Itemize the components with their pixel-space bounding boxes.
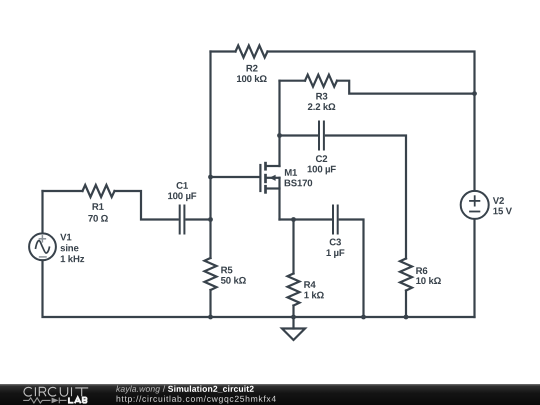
svg-text:V1: V1	[60, 232, 72, 243]
svg-text:100 µF: 100 µF	[307, 164, 336, 175]
resistor R3	[305, 75, 337, 87]
junction node source/R4	[291, 217, 296, 222]
svg-text:70 Ω: 70 Ω	[88, 214, 109, 225]
wire bottom rail	[43, 260, 475, 317]
svg-text:1 µF: 1 µF	[326, 248, 345, 259]
capacitor C3	[333, 206, 338, 234]
wire R6 to bottom rail	[405, 291, 407, 318]
svg-text:R4: R4	[304, 280, 317, 291]
svg-text:2.2 kΩ: 2.2 kΩ	[308, 102, 336, 113]
voltage source V1	[29, 233, 56, 260]
footer bar	[0, 383, 540, 405]
svg-text:50 kΩ: 50 kΩ	[221, 276, 247, 287]
svg-text:sine: sine	[60, 243, 78, 254]
wire top rail left	[211, 50, 236, 52]
wire V2 bottom lead	[473, 219, 475, 317]
junction node R6/bottom rail	[404, 315, 409, 320]
junction node R5/bottom rail	[208, 315, 213, 320]
svg-text:R5: R5	[221, 265, 234, 276]
junction node ground	[291, 315, 296, 320]
svg-text:R2: R2	[246, 63, 258, 74]
wire gate	[211, 176, 259, 178]
wire top rail right	[268, 52, 475, 191]
voltage source V2	[461, 191, 489, 219]
wire left vertical to R5	[209, 220, 211, 259]
wire R1 to corner	[115, 191, 178, 220]
ground	[282, 317, 305, 340]
svg-text:R1: R1	[92, 202, 105, 213]
svg-text:V2: V2	[493, 196, 504, 207]
resistor R2	[236, 46, 268, 58]
logo word LAB	[69, 397, 87, 403]
junction node R3/right rail	[472, 91, 477, 96]
wire drain node to C2	[280, 134, 318, 136]
svg-text:100 kΩ: 100 kΩ	[236, 74, 267, 85]
transistor M1	[260, 162, 279, 220]
logo word CIRCUIT	[24, 387, 88, 396]
wire R4 top lead	[292, 220, 294, 274]
svg-text:100 µF: 100 µF	[168, 191, 197, 202]
svg-text:M1: M1	[284, 168, 298, 179]
wire R4 to bottom rail	[292, 306, 294, 318]
junction node C1/R5	[208, 217, 213, 222]
svg-text:kayla.wong / Simulation2_circu: kayla.wong / Simulation2_circuit2	[116, 384, 254, 394]
svg-text:15 V: 15 V	[493, 206, 513, 217]
wire C2 to R6 branch	[326, 136, 406, 259]
wire source to C3 node	[280, 218, 332, 220]
wire V1 to R1	[43, 190, 83, 192]
credit line 1	[116, 384, 277, 404]
wire left vertical top (node to top rail)	[209, 52, 211, 220]
logo waveform and diode	[23, 398, 66, 404]
wire C1 to node	[186, 218, 210, 220]
wire drain vertical	[278, 81, 280, 166]
svg-text:1 kHz: 1 kHz	[60, 254, 85, 265]
wire drain to R3	[280, 80, 306, 82]
wire V1 top lead	[41, 191, 43, 233]
svg-text:R3: R3	[316, 92, 328, 103]
resistor R4	[288, 274, 300, 306]
capacitor C2	[319, 122, 324, 150]
svg-text:10 kΩ: 10 kΩ	[416, 276, 442, 287]
svg-text:http://circuitlab.com/cwgqc25h: http://circuitlab.com/cwgqc25hmkfx4	[116, 394, 277, 404]
svg-text:C3: C3	[329, 237, 341, 248]
capacitor C1	[180, 206, 185, 234]
junction node C3/bottom rail	[361, 315, 366, 320]
resistor R5	[205, 258, 217, 290]
junction node drain/C2	[277, 133, 282, 138]
svg-text:C1: C1	[176, 181, 189, 192]
resistor R1	[83, 185, 115, 197]
svg-text:1 kΩ: 1 kΩ	[304, 290, 325, 301]
junction node gate	[208, 175, 213, 180]
svg-text:BS170: BS170	[284, 178, 312, 189]
resistor R6	[400, 259, 412, 291]
wire C3 to bottom rail	[340, 220, 364, 318]
wire R3 to right rail	[337, 81, 475, 94]
wire R5 to bottom rail	[209, 290, 211, 317]
